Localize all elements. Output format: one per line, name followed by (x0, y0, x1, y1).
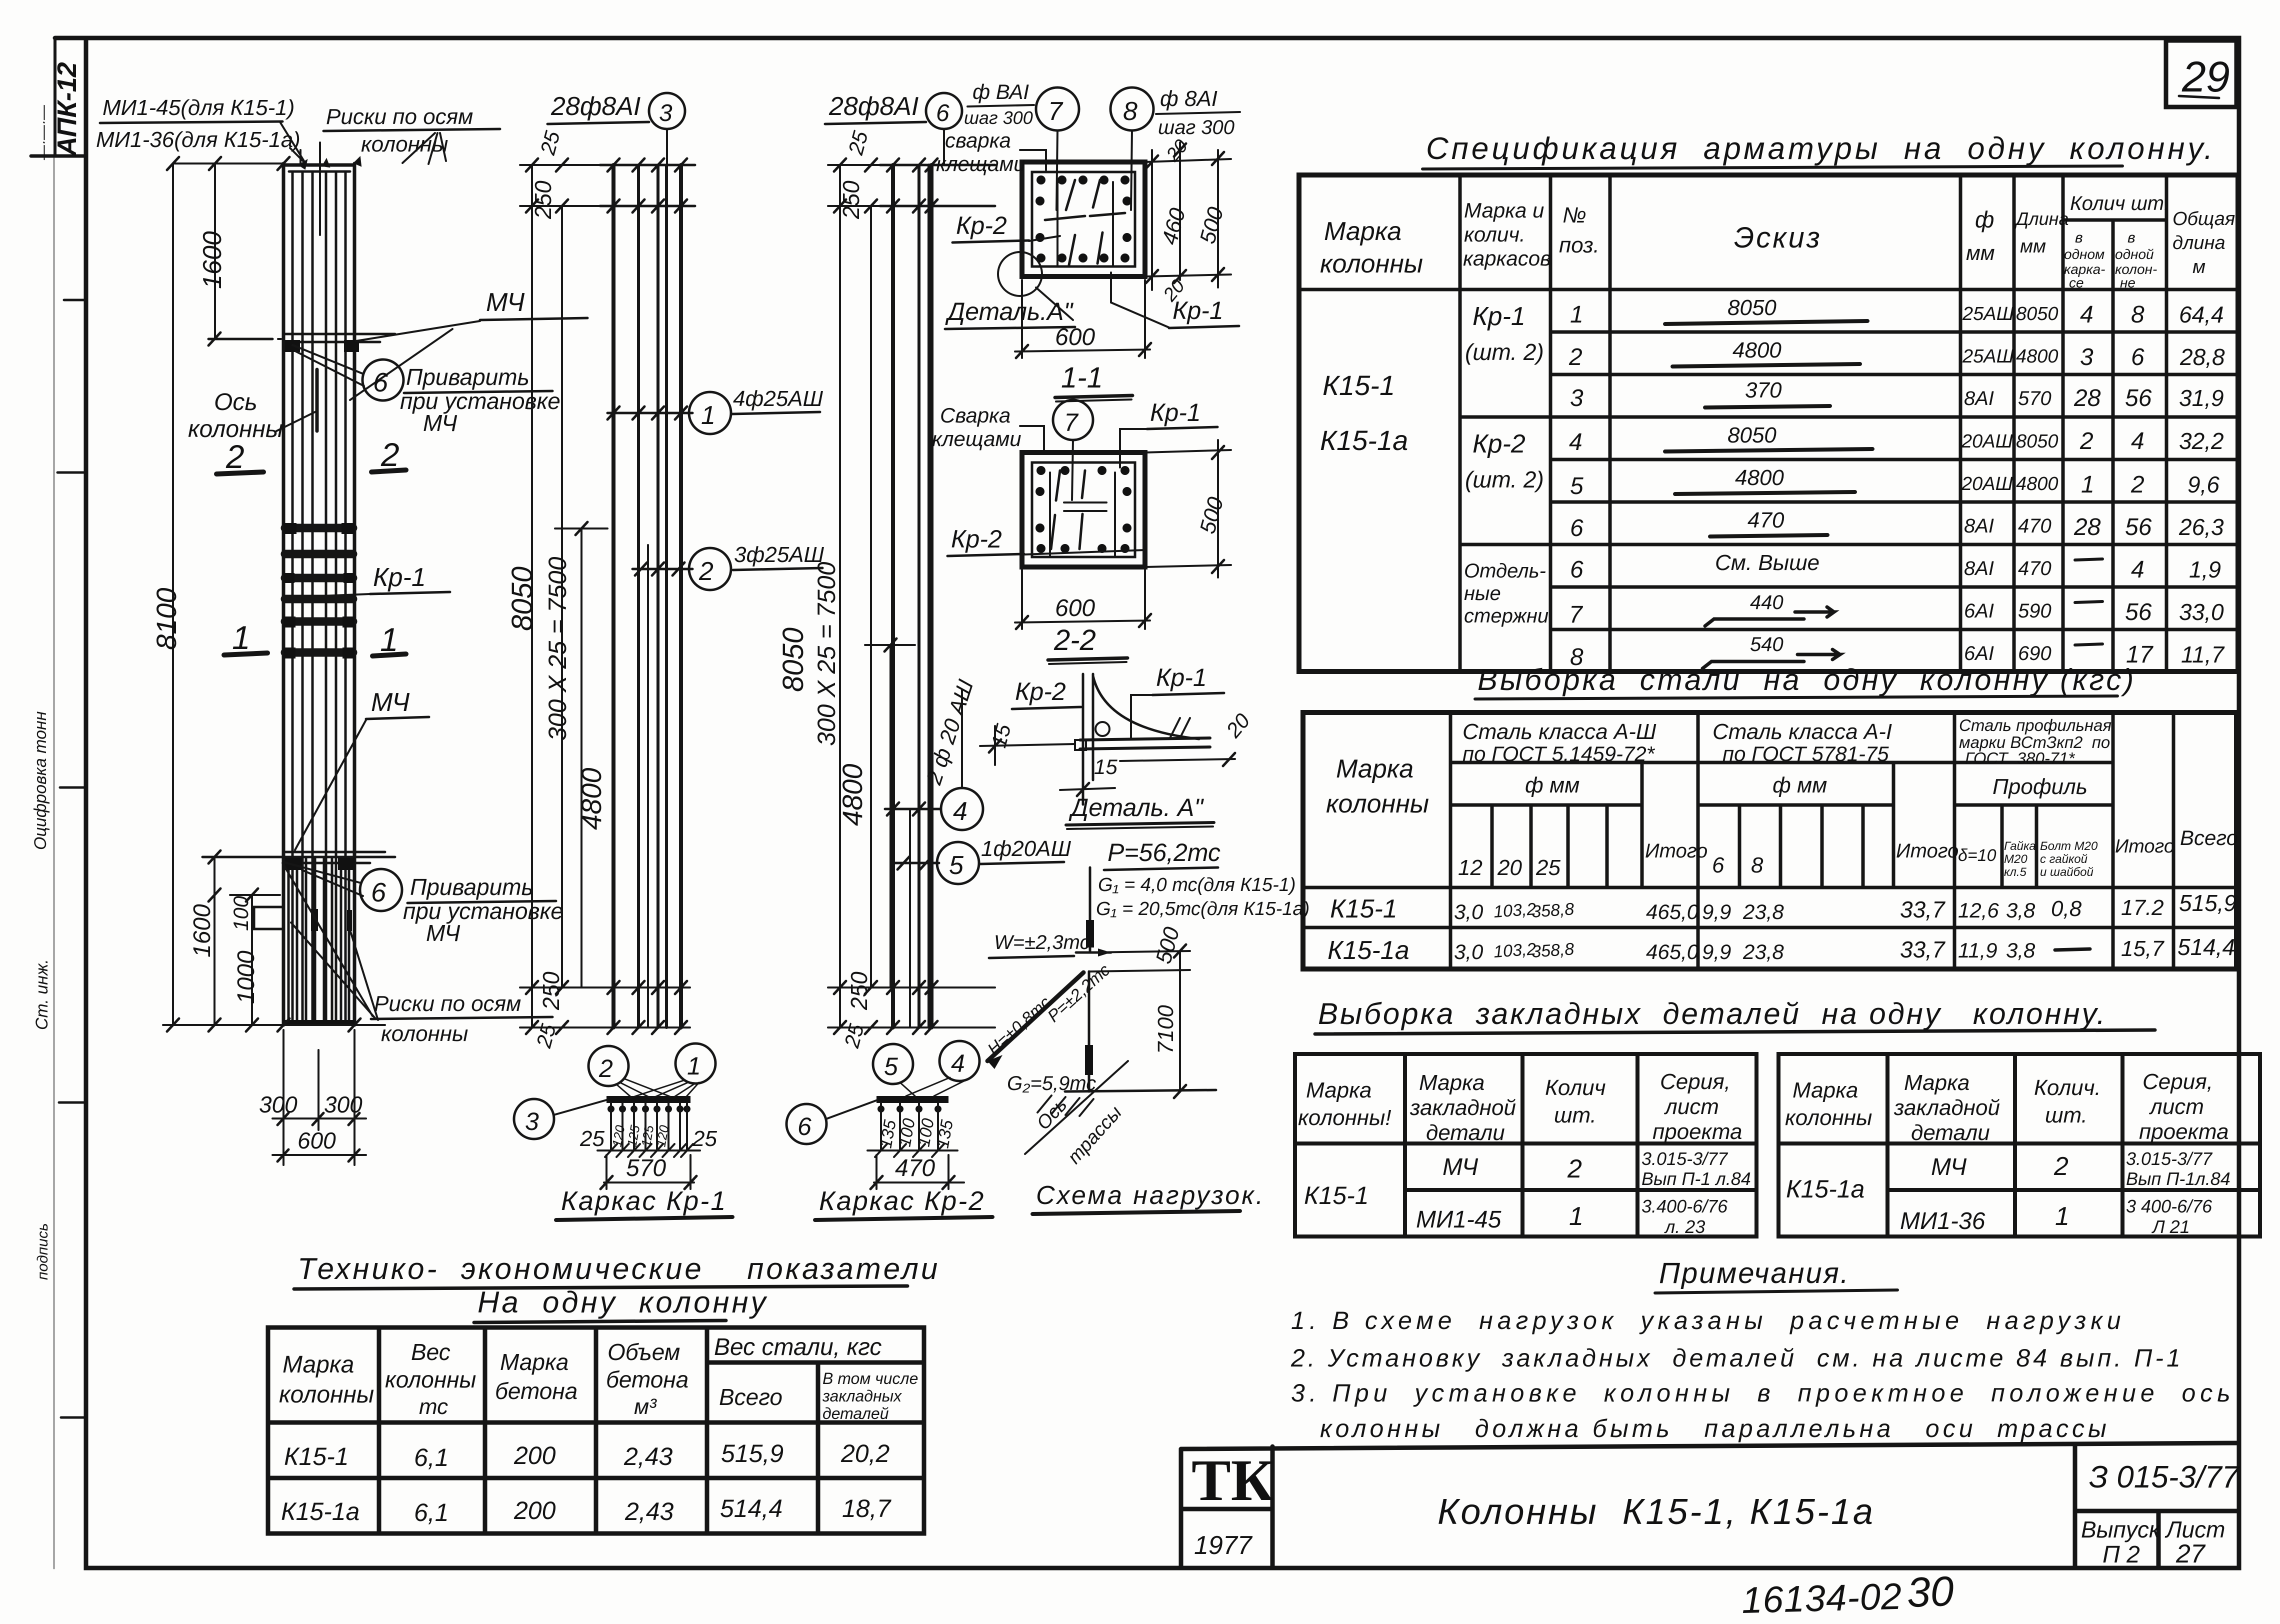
svg-text:закладных: закладных (822, 1387, 902, 1405)
svg-text:20,2: 20,2 (840, 1439, 890, 1467)
svg-text:4: 4 (2131, 556, 2144, 583)
svg-text:Колич.: Колич. (2034, 1075, 2101, 1100)
svg-text:Выборка закладных деталей н: Выборка закладных деталей на одну колонн… (1318, 997, 2107, 1030)
svg-text:29: 29 (2181, 53, 2230, 101)
svg-text:26,3: 26,3 (2178, 514, 2224, 540)
tech-econ data rows (281, 1439, 892, 1526)
svg-text:200: 200 (513, 1496, 556, 1524)
svg-text:515,9: 515,9 (2179, 890, 2236, 916)
sidebar vertical text АПК-12 (31, 62, 82, 1280)
svg-text:П 2: П 2 (2102, 1541, 2140, 1568)
svg-text:шаг 300: шаг 300 (964, 107, 1033, 128)
svg-text:33,7: 33,7 (1900, 896, 1945, 922)
svg-text:МИ1-45(для К15-1): МИ1-45(для К15-1) (102, 95, 294, 120)
svg-text:103,2: 103,2 (1493, 939, 1537, 961)
svg-text:деталей: деталей (822, 1404, 889, 1422)
svg-text:Серия,: Серия, (1660, 1069, 1730, 1094)
svg-text:шаг 300: шаг 300 (1158, 116, 1234, 138)
svg-text:6: 6 (1712, 853, 1724, 877)
svg-text:4: 4 (1569, 429, 1582, 455)
svg-text:и шайбой: и шайбой (2040, 865, 2093, 879)
svg-text:Сталь класса А-I: Сталь класса А-I (1712, 719, 1892, 744)
svg-text:3: 3 (2080, 344, 2093, 370)
svg-text:17.2: 17.2 (2121, 895, 2164, 920)
cage Kr-2 bars (893, 165, 931, 1027)
svg-text:440: 440 (1750, 591, 1783, 613)
svg-text:3,0: 3,0 (1454, 940, 1483, 963)
svg-text:300: 300 (259, 1091, 297, 1117)
section marks 1-1 (224, 619, 406, 658)
svg-text:6: 6 (1570, 515, 1583, 541)
svg-text:23,8: 23,8 (1742, 940, 1784, 963)
svg-text:Марка: Марка (1904, 1070, 1969, 1095)
detail A labels (980, 663, 1254, 829)
svg-text:Марка: Марка (1419, 1070, 1484, 1095)
callout 4 with 2ф20АIII (921, 676, 983, 830)
label MI1-45 / MI1-36 (96, 95, 304, 162)
svarka kleshchami label 2 (932, 403, 1044, 450)
svg-text:Колич: Колич (1545, 1075, 1606, 1100)
svg-text:2: 2 (1568, 344, 1582, 370)
svg-text:2: 2 (2079, 428, 2093, 454)
svg-text:514,4: 514,4 (720, 1494, 782, 1522)
svg-text:Выпуск: Выпуск (2081, 1516, 2161, 1542)
svg-text:300 X 25 = 7500: 300 X 25 = 7500 (812, 561, 840, 746)
svg-text:3,8: 3,8 (2006, 898, 2035, 922)
svg-text:Р=±2,2тс: Р=±2,2тс (1044, 960, 1113, 1026)
svg-text:3.015-3/77: 3.015-3/77 (2126, 1148, 2213, 1169)
embedded parts left table grid (1295, 1054, 1756, 1236)
spec total length (2178, 301, 2225, 667)
svg-text:9,9: 9,9 (1702, 940, 1731, 963)
svg-text:колонны!: колонны! (1298, 1105, 1391, 1130)
label riski po osyam bottom (282, 863, 552, 1046)
svg-text:2: 2 (698, 557, 713, 586)
cage Kr-2 tick rows (880, 158, 995, 1034)
svg-text:W=±2,3тс: W=±2,3тс (994, 931, 1090, 953)
svg-text:514,4: 514,4 (2177, 934, 2235, 960)
svg-text:шт.: шт. (2045, 1103, 2087, 1127)
svg-text:5: 5 (1570, 473, 1583, 499)
svg-text:1ф20АШ: 1ф20АШ (981, 836, 1071, 861)
svg-text:23,8: 23,8 (1742, 900, 1784, 923)
label Kr-1 sec 2-2 (1120, 398, 1217, 467)
svg-text:лист: лист (1663, 1094, 1719, 1119)
spec qty per column (2125, 301, 2154, 668)
svg-text:подпись: подпись (34, 1223, 51, 1280)
svg-text:Кр-2: Кр-2 (951, 525, 1002, 553)
svg-text:7100: 7100 (1153, 1005, 1178, 1054)
svg-text:2: 2 (380, 436, 399, 473)
svg-text:470: 470 (2018, 515, 2051, 537)
svg-text:Каркас Кр-1: Каркас Кр-1 (561, 1186, 727, 1216)
svg-text:Всего: Всего (719, 1384, 782, 1410)
svg-text:тс: тс (419, 1394, 448, 1419)
svg-text:4: 4 (2080, 301, 2093, 328)
svg-text:25: 25 (531, 1021, 560, 1050)
svg-text:3: 3 (1570, 385, 1583, 411)
svg-text:В том числе: В том числе (822, 1369, 918, 1387)
svg-text:Кр-2: Кр-2 (1472, 429, 1525, 458)
svg-text:8: 8 (1123, 97, 1137, 126)
svg-text:МЧ: МЧ (426, 920, 460, 946)
svg-text:33,0: 33,0 (2179, 599, 2224, 625)
cage Kr-2 top label 28ф8АI (825, 92, 962, 165)
svg-text:колонны: колонны (1326, 789, 1429, 818)
svg-text:25: 25 (839, 1021, 868, 1050)
svg-text:470: 470 (1747, 508, 1784, 532)
svg-text:ные: ные (1464, 582, 1501, 604)
callout 7 sec 1-1 (964, 80, 1079, 210)
svg-text:сварка: сварка (945, 128, 1011, 152)
svg-text:Кр-1: Кр-1 (1472, 302, 1525, 331)
callout 8 sec 1-1 (1110, 86, 1240, 210)
svg-text:250: 250 (846, 971, 872, 1010)
label Karkas Kr-1 (556, 1186, 732, 1220)
svg-text:1: 1 (232, 619, 250, 656)
svg-text:250: 250 (838, 180, 864, 219)
svg-text:с гайкой: с гайкой (2040, 852, 2087, 866)
svg-text:Марка: Марка (1792, 1078, 1858, 1102)
svg-text:МИ1-36: МИ1-36 (1900, 1208, 1985, 1234)
callouts 2,1,3 over plan (514, 1043, 715, 1139)
dim 1600 top vertical (198, 163, 227, 339)
cage Kr-1 plan view (579, 1096, 717, 1189)
svg-text:Кр-1: Кр-1 (373, 563, 426, 592)
spec lengths (2016, 303, 2058, 664)
label Kr-2 sec 2-2 (947, 525, 1145, 556)
svg-text:358,8: 358,8 (1531, 939, 1575, 961)
svg-text:5: 5 (884, 1052, 898, 1080)
svg-text:64,4: 64,4 (2179, 301, 2224, 327)
svg-text:6: 6 (936, 100, 949, 126)
svg-text:500: 500 (1195, 204, 1228, 246)
svg-text:25АШ: 25АШ (1962, 303, 2014, 324)
svg-text:Каркас Кр-2: Каркас Кр-2 (819, 1186, 985, 1216)
svg-text:Кр-2: Кр-2 (956, 211, 1007, 239)
svg-text:28: 28 (2073, 385, 2101, 411)
svg-text:МИ1-36(для К15-1а): МИ1-36(для К15-1а) (96, 127, 300, 152)
svg-text:Марка: Марка (1336, 754, 1413, 783)
svg-text:G₁ = 20,5тс(для К15-1а): G₁ = 20,5тс(для К15-1а) (1096, 898, 1309, 919)
cage Kr-2 plan view (867, 1096, 964, 1189)
svg-text:К15-1: К15-1 (1322, 369, 1395, 401)
svg-text:АПК-12: АПК-12 (52, 62, 82, 157)
svg-text:56: 56 (2125, 514, 2152, 540)
svg-text:мм: мм (2020, 236, 2046, 257)
svg-text:в: в (2075, 229, 2083, 246)
svg-text:Итого: Итого (2115, 836, 2174, 857)
svg-text:МЧ: МЧ (423, 410, 457, 436)
svg-text:З 015-3/77: З 015-3/77 (2089, 1460, 2240, 1494)
page number 29 box (2166, 40, 2236, 107)
svg-text:Вып П-1л.84: Вып П-1л.84 (2126, 1168, 2230, 1189)
svg-text:1977: 1977 (1194, 1531, 1253, 1560)
svg-text:одном: одном (2064, 246, 2104, 262)
svg-text:м³: м³ (634, 1394, 657, 1419)
embedded parts right table text (1785, 1069, 2230, 1237)
svg-text:3: 3 (659, 100, 672, 126)
svg-text:3: 3 (525, 1107, 539, 1135)
spec diameters (1961, 303, 2014, 664)
svg-text:11,7: 11,7 (2181, 641, 2225, 667)
svg-text:δ=10: δ=10 (1958, 846, 1996, 865)
svg-text:16134-02: 16134-02 (1741, 1575, 1902, 1621)
svg-text:Кр-1: Кр-1 (1150, 398, 1201, 426)
svg-text:3. При установке колонны в: 3. При установке колонны в проектное пол… (1291, 1379, 2235, 1407)
section 2-2 right dim 500 (1145, 440, 1231, 577)
svg-text:15: 15 (1094, 755, 1117, 778)
svg-text:МЧ: МЧ (486, 288, 525, 317)
svg-text:7: 7 (1569, 601, 1583, 628)
svg-text:К15-1: К15-1 (1330, 894, 1397, 923)
svg-text:2. Установку закладных детал: 2. Установку закладных деталей см. на ли… (1290, 1344, 2183, 1372)
spec col1: column marks (1320, 302, 1548, 627)
svg-text:20АШ: 20АШ (1961, 431, 2013, 452)
svg-text:№: № (1562, 203, 1586, 227)
svg-text:Кр-1: Кр-1 (1156, 663, 1207, 691)
spec qty per cage (2073, 301, 2102, 645)
svg-text:Ось: Ось (214, 389, 257, 415)
svg-text:Спецификация арматуры на од: Спецификация арматуры на одну колонну. (1426, 131, 2215, 166)
svg-text:20: 20 (1221, 708, 1254, 742)
svg-text:6,1: 6,1 (414, 1443, 449, 1471)
section marks 2-2 (216, 436, 406, 475)
svg-text:МЧ: МЧ (371, 688, 410, 717)
cage Kr-1 bars (613, 165, 681, 1027)
svg-text:Ось: Ось (1032, 1094, 1071, 1134)
svg-text:8050: 8050 (2016, 431, 2058, 452)
svg-text:колич.: колич. (1464, 222, 1525, 246)
steel table header (1326, 716, 2238, 880)
svg-text:Болт М20: Болт М20 (2040, 839, 2098, 853)
svg-text:1: 1 (687, 1052, 701, 1080)
section 1-1 right dims 460/500/20 (1145, 135, 1231, 305)
svg-text:се: се (2069, 275, 2084, 290)
svg-text:465,0: 465,0 (1646, 900, 1699, 923)
svg-text:Вес: Вес (411, 1339, 450, 1365)
svg-text:4ф25АШ: 4ф25АШ (733, 386, 823, 411)
svg-text:М20: М20 (2004, 852, 2027, 866)
cage Kr-2 dim lines (777, 128, 995, 1050)
column K15-1 lower dense zone (254, 857, 354, 1025)
svg-text:6: 6 (1570, 556, 1583, 583)
svg-text:15,7: 15,7 (2121, 936, 2164, 961)
steel row K15-1 (1330, 890, 2236, 923)
svg-text:470: 470 (2018, 557, 2051, 579)
svg-text:200: 200 (513, 1441, 556, 1469)
svg-text:Вес стали, кгс: Вес стали, кгс (714, 1334, 881, 1360)
spec table title (1422, 131, 2215, 169)
svg-text:33,7: 33,7 (1900, 936, 1945, 962)
svg-text:2: 2 (598, 1054, 613, 1082)
svg-text:2: 2 (2053, 1152, 2068, 1181)
steel table title (1475, 663, 2136, 699)
svg-text:8050: 8050 (1727, 423, 1776, 447)
svg-text:25: 25 (843, 128, 872, 157)
label shema nagruzok (1032, 1181, 1265, 1214)
TK logo (1191, 1447, 1273, 1560)
svg-text:Риски по осям: Риски по осям (374, 991, 521, 1016)
svg-text:100: 100 (229, 895, 252, 931)
svg-text:8АI: 8АI (1964, 387, 1994, 409)
svg-text:4800: 4800 (575, 767, 607, 830)
notes (1290, 1257, 2235, 1442)
svg-text:в: в (2127, 229, 2135, 246)
svg-text:3ф25АШ: 3ф25АШ (734, 542, 824, 567)
svg-text:Н=±0,8тс: Н=±0,8тс (984, 993, 1054, 1059)
svg-text:Кр-1: Кр-1 (1172, 296, 1223, 324)
svg-text:2-2: 2-2 (1053, 624, 1096, 656)
svg-text:Серия,: Серия, (2142, 1069, 2213, 1094)
svg-text:3.015-3/77: 3.015-3/77 (1641, 1148, 1728, 1169)
svg-text:250: 250 (530, 180, 556, 219)
svg-text:(шт. 2): (шт. 2) (1465, 466, 1544, 492)
svg-text:ГОСТ 380-71*: ГОСТ 380-71* (1965, 749, 2075, 767)
svg-text:Сталь профильная: Сталь профильная (1959, 716, 2111, 734)
svg-text:Итого: Итого (1645, 840, 1707, 862)
svg-text:Колонны К15-1, К15-1а: Колонны К15-1, К15-1а (1437, 1492, 1875, 1532)
svg-text:кл.5: кл.5 (2004, 865, 2027, 879)
svg-text:25: 25 (692, 1126, 717, 1151)
svg-text:G₁ = 4,0 тс(для К15-1): G₁ = 4,0 тс(для К15-1) (1098, 874, 1296, 895)
svg-text:1000: 1000 (233, 950, 259, 1004)
svg-text:Марка: Марка (1306, 1078, 1371, 1102)
svg-text:1. В схеме нагрузок указаны: 1. В схеме нагрузок указаны расчетные на… (1291, 1306, 2125, 1334)
svg-text:300 X 25 = 7500: 300 X 25 = 7500 (543, 556, 571, 741)
svg-text:Схема нагрузок.: Схема нагрузок. (1036, 1181, 1265, 1210)
label riski po osyam top (299, 104, 500, 169)
tech-econ table grid (268, 1327, 924, 1533)
svg-text:Кр-2: Кр-2 (1015, 677, 1066, 705)
svg-text:ф ВАI: ф ВАI (972, 80, 1029, 103)
svg-text:12,6: 12,6 (1958, 898, 1999, 922)
svg-text:Приварить: Приварить (410, 874, 533, 900)
svg-text:4800: 4800 (2016, 473, 2058, 494)
svg-text:Эскиз: Эскиз (1734, 221, 1822, 254)
svg-text:Приварить: Приварить (406, 364, 529, 390)
svg-text:1-1: 1-1 (1061, 361, 1103, 394)
label Kr-1 sec 1-1 (1111, 272, 1239, 328)
svg-text:1600: 1600 (189, 904, 215, 957)
svg-text:К15-1а: К15-1а (1327, 936, 1409, 965)
svg-text:колонны: колонны (385, 1366, 476, 1392)
svg-text:Длина: Длина (2014, 208, 2069, 229)
svg-text:250: 250 (538, 971, 564, 1010)
svg-text:3 400-6/76: 3 400-6/76 (2126, 1196, 2212, 1216)
svg-text:25: 25 (535, 128, 564, 157)
svg-text:не: не (2120, 275, 2135, 290)
svg-text:колонны: колонны (1785, 1105, 1872, 1130)
svg-text:каркасов: каркасов (1463, 246, 1551, 270)
label M4 top (350, 288, 587, 400)
svg-text:18,7: 18,7 (842, 1494, 892, 1522)
svg-text:6: 6 (373, 367, 388, 397)
handwritten doc number bottom (1741, 1567, 1954, 1621)
svg-text:ф: ф (1975, 206, 1994, 232)
dim 8100 vertical (150, 163, 182, 1031)
svg-text:4: 4 (2131, 428, 2144, 454)
svg-text:Технико- экономические пок: Технико- экономические показатели (297, 1252, 940, 1285)
svg-text:Л 21: Л 21 (2151, 1216, 2190, 1237)
svg-text:мм: мм (1966, 241, 1995, 264)
title block (1181, 1443, 2239, 1568)
svg-text:1: 1 (701, 401, 715, 430)
svg-text:(шт. 2): (шт. 2) (1465, 339, 1544, 365)
upper axis marker line (riska) (208, 332, 395, 352)
svg-text:28,8: 28,8 (2179, 344, 2225, 370)
svg-text:27: 27 (2175, 1539, 2206, 1568)
svg-text:56: 56 (2125, 599, 2152, 625)
svg-text:600: 600 (297, 1127, 336, 1153)
svg-text:8: 8 (1751, 853, 1763, 877)
svg-text:6: 6 (371, 877, 386, 907)
svg-text:колонны должна быть паралл: колонны должна быть параллельна оси трас… (1320, 1414, 2110, 1442)
section 2-2 bottom dim 600 (1015, 570, 1151, 629)
svg-text:5: 5 (949, 851, 964, 880)
svg-text:103,2: 103,2 (1493, 899, 1537, 921)
svg-text:одной: одной (2115, 246, 2154, 262)
svg-text:540: 540 (1750, 633, 1783, 655)
svg-text:4: 4 (953, 797, 967, 826)
svg-text:0,8: 0,8 (2051, 896, 2082, 921)
svarka kleshchami label top (936, 128, 1046, 175)
svg-text:8АI: 8АI (1964, 515, 1994, 537)
svg-text:460: 460 (1157, 205, 1190, 247)
svg-text:25: 25 (1535, 855, 1560, 880)
svg-text:клещами: клещами (932, 427, 1021, 450)
svg-text:690: 690 (2018, 642, 2051, 664)
title block texts (1437, 1460, 2240, 1568)
embedded parts left table text (1298, 1069, 1751, 1237)
svg-text:Объем: Объем (607, 1339, 680, 1365)
svg-text:ф мм: ф мм (1525, 773, 1579, 797)
svg-text:л. 23: л. 23 (1664, 1216, 1705, 1237)
callout 6 upper (292, 345, 560, 436)
section 2-2 name (1048, 624, 1127, 664)
svg-text:6: 6 (797, 1112, 811, 1140)
svg-text:Вып П-1 л.84: Вып П-1 л.84 (1641, 1168, 1751, 1189)
callout 2 with 3ф25АIII (689, 542, 824, 590)
svg-text:закладной: закладной (1409, 1095, 1516, 1120)
svg-text:проекта: проекта (1652, 1119, 1742, 1144)
svg-text:28: 28 (2073, 514, 2101, 540)
svg-text:8050: 8050 (777, 627, 809, 692)
svg-text:Марка и: Марка и (1464, 198, 1544, 222)
svg-text:3,8: 3,8 (2006, 938, 2035, 962)
svg-text:Профиль: Профиль (1992, 774, 2087, 799)
svg-text:проекта: проекта (2139, 1119, 2229, 1144)
tech-econ title (294, 1252, 940, 1322)
svg-text:стержни: стержни (1464, 605, 1548, 627)
svg-text:м: м (2192, 256, 2205, 277)
svg-text:8050: 8050 (1727, 295, 1776, 320)
label Kr-2 sec 1-1 (952, 211, 1060, 242)
svg-text:370: 370 (1745, 378, 1782, 402)
top dimension line (167, 157, 289, 170)
callout 5 with 1ф20АIII (937, 836, 1071, 884)
svg-text:465,0: 465,0 (1646, 940, 1699, 963)
svg-text:4: 4 (951, 1049, 965, 1077)
svg-text:25: 25 (579, 1126, 604, 1151)
svg-text:8: 8 (2131, 301, 2144, 328)
svg-text:1600: 1600 (198, 231, 227, 289)
svg-text:570: 570 (626, 1155, 666, 1181)
svg-text:2: 2 (225, 438, 244, 475)
svg-text:К15-1: К15-1 (284, 1442, 349, 1470)
cage Kr-1 tick rows (600, 158, 695, 1034)
svg-text:12: 12 (1458, 855, 1482, 880)
